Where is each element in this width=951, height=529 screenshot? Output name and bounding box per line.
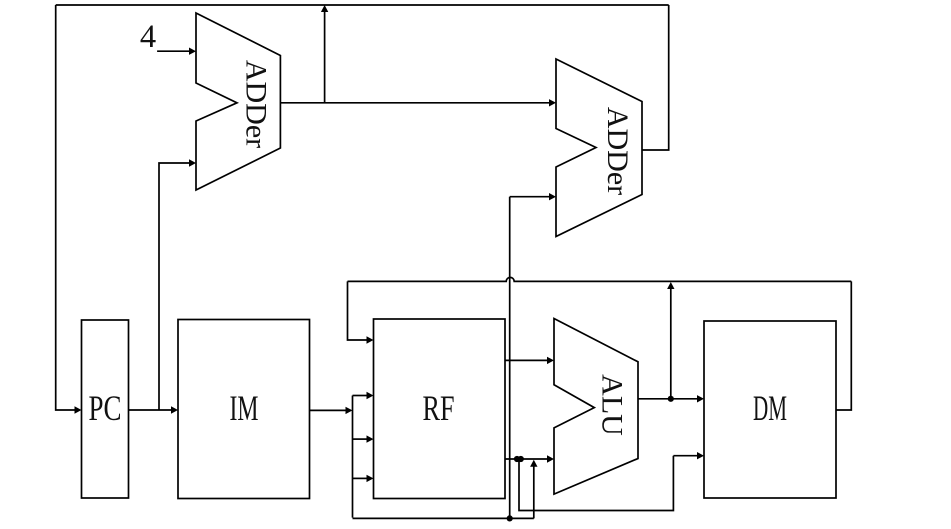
wire: write-back feedback line with hop over branch bus <box>348 277 852 281</box>
wire: ADDer U1 output to ADDer U2 input A <box>280 102 550 104</box>
wire: left feedback riser down to PC input <box>56 5 75 410</box>
wire: ALU result to DM address <box>638 398 697 400</box>
wire: bottom bus riser up into read-data-2 line <box>533 466 535 518</box>
wire: bottom bus <box>353 517 534 519</box>
wire: PC output to IM <box>129 409 172 411</box>
wire: constant 4 to ADDer U1 input A <box>157 50 190 52</box>
adder U2 (ADDer) <box>556 59 642 237</box>
wire: ALU result riser up to write-back line <box>670 289 672 399</box>
block DM <box>704 321 836 498</box>
wire: instruction bus vertical <box>352 396 354 518</box>
svg-text:IM: IM <box>230 388 259 428</box>
svg-text:PC: PC <box>89 388 122 428</box>
wire: top feedback line <box>56 4 669 6</box>
wire: RF read data 1 to ALU input A <box>505 359 547 361</box>
wire: ADDer U2 output stub to right riser <box>642 5 669 150</box>
wire: store data path to DM write input <box>519 456 697 511</box>
block PC <box>82 320 129 498</box>
svg-text:ALU: ALU <box>596 374 629 436</box>
wire: RF read data 2 to ALU input B <box>505 458 547 460</box>
ALU U3 <box>554 319 638 495</box>
wire: IM output to instruction bus <box>310 409 347 411</box>
wire: PC output tap riser to ADDer U1 input B <box>159 163 190 410</box>
junction pair on read-data-2 line <box>514 456 520 462</box>
svg-text:ADDer: ADDer <box>601 107 634 195</box>
wire: bus stub to RF input 2 <box>353 438 367 440</box>
junction ALU result tap <box>668 396 674 402</box>
wire: branch bus vertical <box>509 197 511 518</box>
wire: branch bus stub to ADDer U2 input B <box>510 196 549 198</box>
wire: DM right output stub up to write-back line <box>836 281 851 410</box>
wire: bus stub to RF input 1 <box>353 395 367 397</box>
svg-text:RF: RF <box>423 388 455 428</box>
wire: write-back drop into RF write input <box>348 281 367 340</box>
adder U1 (ADDer) <box>196 13 280 190</box>
block IM <box>178 320 310 499</box>
svg-text:4: 4 <box>140 19 156 55</box>
wire: PC+4 branch riser up to top feedback line <box>324 12 326 103</box>
junction branch bus to bottom bus <box>507 515 513 521</box>
block RF <box>374 319 506 499</box>
wire: bus stub to RF input 3 <box>353 477 367 479</box>
svg-text:DM: DM <box>753 388 787 428</box>
svg-text:ADDer: ADDer <box>240 60 273 148</box>
